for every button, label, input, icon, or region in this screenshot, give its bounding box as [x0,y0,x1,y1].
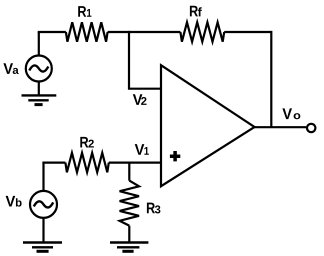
resistor R1 [66,22,108,41]
ground (under Vb) [23,243,62,252]
wire Vb bottom lead [42,218,44,243]
ground (under R3) [110,243,148,252]
source Va [26,56,52,82]
wire node V1 down to R3 [128,162,130,181]
op-amp U1 [161,65,255,186]
resistor R3 [120,181,139,226]
wire Vb to R2 [42,162,65,164]
wire Vb top lead [42,163,44,191]
resistor Rf [180,22,224,41]
terminal Vo [307,124,315,132]
op-amp plus input marker [170,151,180,161]
source Vb [30,191,57,218]
label V2 [133,94,147,105]
label Vb [6,196,22,207]
resistor R2 [65,153,108,172]
wire output [255,126,307,128]
label Vo [282,108,300,119]
label V1 [135,144,149,155]
label R2 [80,137,94,148]
wire Va top lead [38,32,40,56]
wire R3 to ground [128,226,130,243]
wire Rf right lead [224,31,271,33]
wire node to V2 input [129,31,161,89]
label Va [3,63,18,74]
wire Rf down to output [270,31,272,127]
label Rf [190,6,202,17]
wire R2 to op-amp plus input (node V1) [109,162,161,164]
ground (under Va) [22,95,57,104]
wire R1 to Rf [108,31,181,33]
label R1 [78,6,91,17]
wire Va bottom lead [38,82,40,96]
wire Va to R1 [38,31,66,33]
label R3 [147,203,161,214]
